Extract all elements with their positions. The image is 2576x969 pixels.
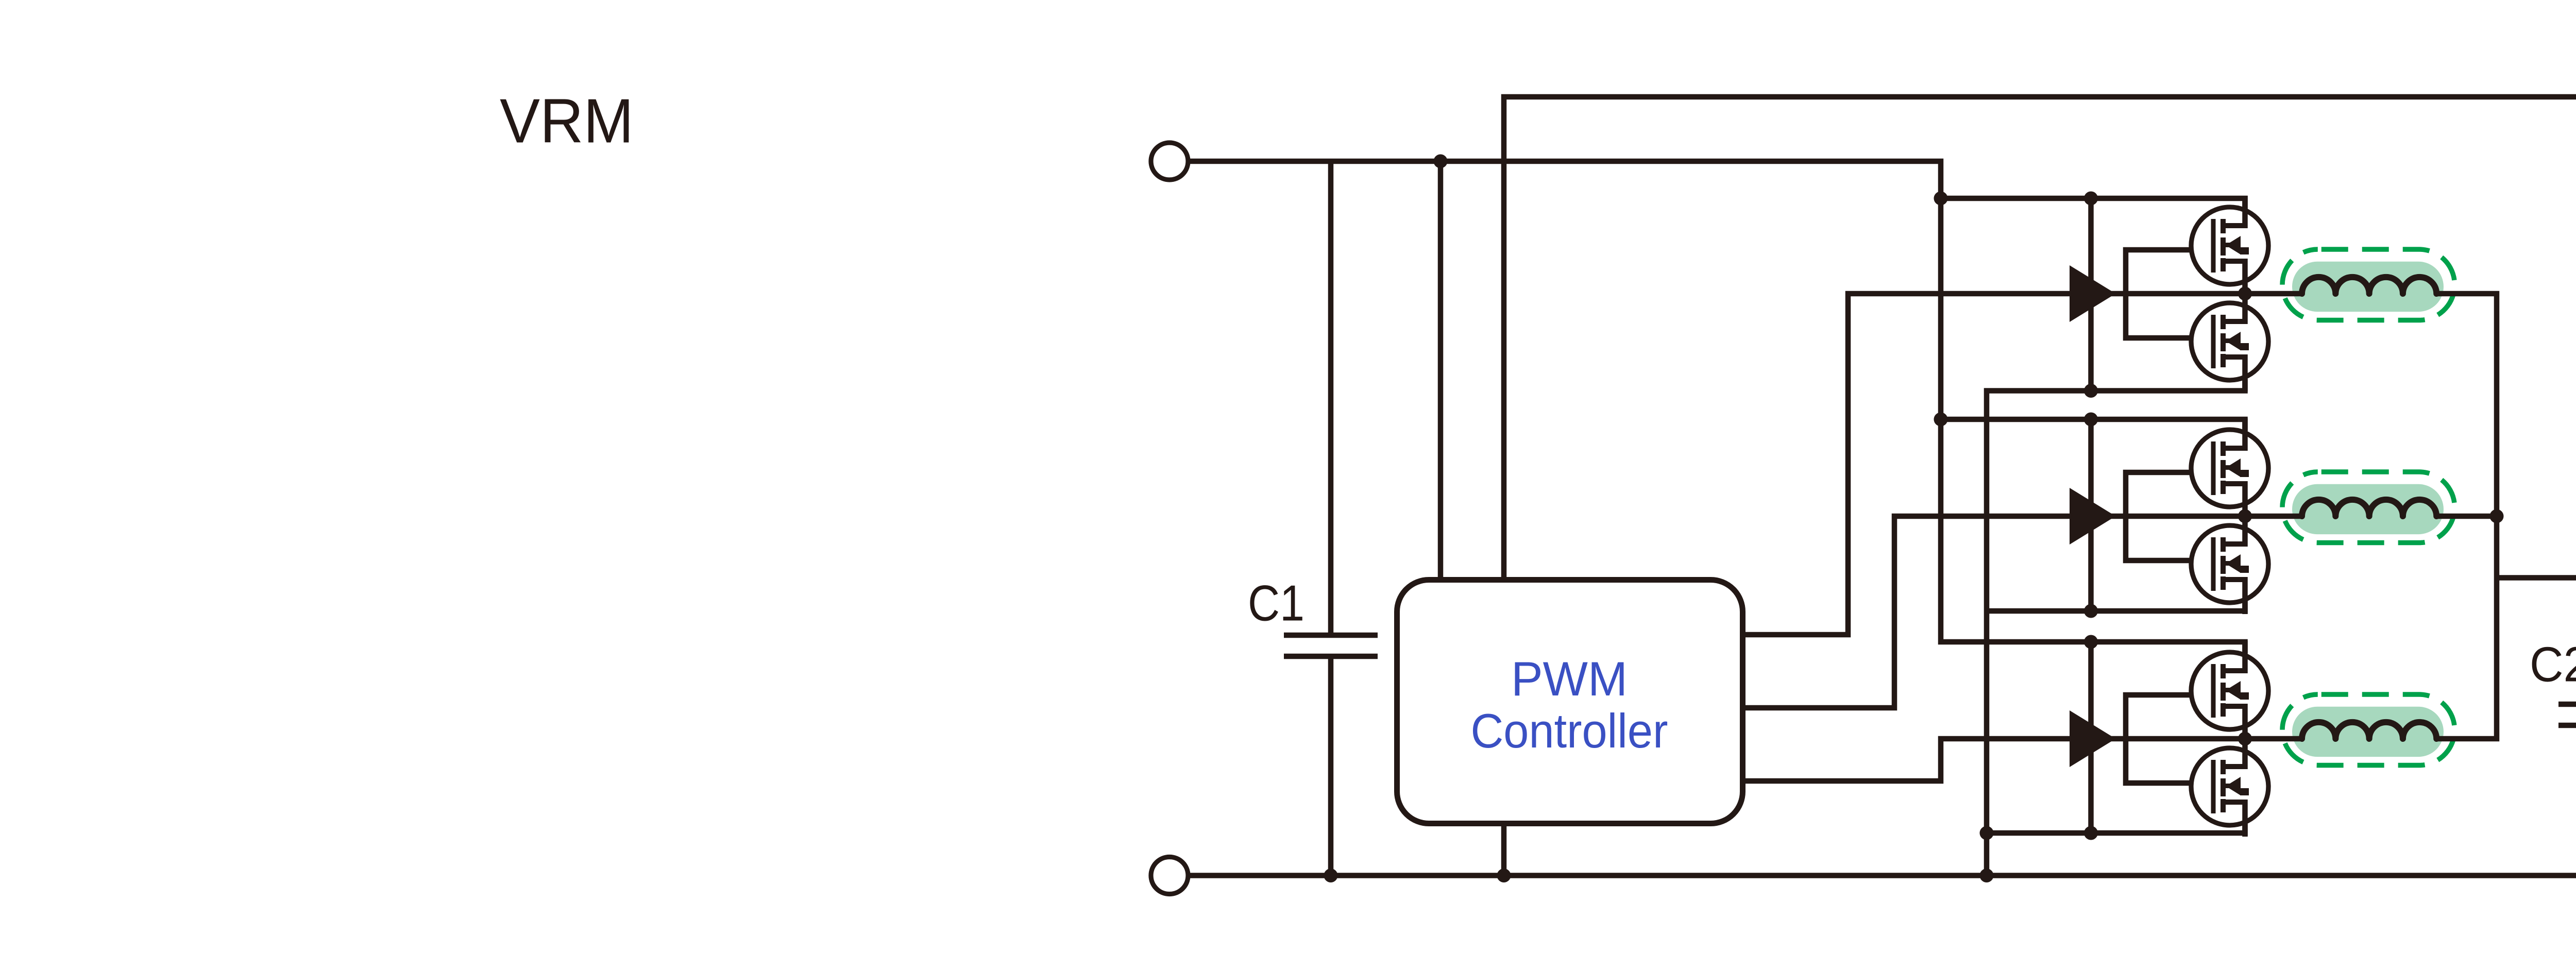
junction: output bus / phase 2 bbox=[2490, 509, 2504, 523]
wire: phase 2 gate bracket bbox=[2126, 472, 2194, 560]
wire: bottom ground rail bbox=[1170, 873, 2576, 878]
svg-text:VRM: VRM bbox=[500, 86, 634, 156]
wire: phase 1 gate bracket bbox=[2126, 250, 2194, 338]
inductor L1 winding bbox=[2302, 277, 2436, 294]
inductor L3 highlight dashed ring bbox=[2282, 694, 2455, 766]
high-side MOSFET Q3H bbox=[2191, 641, 2268, 741]
inductor L2 highlight fill bbox=[2292, 484, 2444, 534]
wire: feedback loop (PWM top, over the top, down to output node) bbox=[1504, 97, 2576, 590]
wire: PWM output 2 route to phase 2 node bbox=[1733, 516, 2245, 708]
svg-text:C1: C1 bbox=[1248, 575, 1304, 632]
wire: PWM ground lead bbox=[1501, 813, 1507, 876]
junction: phase 2 switch node bbox=[2238, 509, 2252, 523]
junction: PWM ground lead / ground rail bbox=[1497, 869, 1511, 882]
junction: source bus / phase 3 source rail bbox=[1980, 826, 1994, 840]
inductor L1 highlight dashed ring bbox=[2282, 249, 2455, 320]
junction: phase 2 vertical bottom bbox=[2084, 604, 2098, 618]
wire: phase 1 inter-rail vertical bbox=[2088, 198, 2094, 391]
junction: phase 3 switch node bbox=[2238, 732, 2252, 746]
wire: output bus with phase 1 and phase 3 inductor leads bbox=[2436, 294, 2497, 739]
inductor L3 highlight fill bbox=[2292, 707, 2444, 757]
PWM controller U1 bbox=[1397, 580, 1743, 824]
wire: phase 2 source rail bbox=[1984, 600, 2245, 611]
inductor L2 winding bbox=[2302, 500, 2436, 516]
capacitor C1 plates bbox=[1284, 635, 1378, 656]
junction: C1 / ground rail bbox=[1324, 869, 1338, 882]
junction: Vin bus / phase 1 Vin rail bbox=[1934, 192, 1948, 206]
wire: C1 branch lower vertical bbox=[1328, 656, 1334, 876]
wire: PWM Vin sense lead bbox=[1438, 161, 1444, 590]
inductor L1 highlight fill bbox=[2292, 262, 2444, 312]
wire: phase 3 inductor left lead bbox=[2245, 736, 2302, 742]
junction: phase 1 vertical bottom bbox=[2084, 384, 2098, 398]
junction: source bus / ground rail bbox=[1980, 869, 1994, 882]
junction: phase 1 vertical top bbox=[2084, 192, 2098, 206]
input terminal bottom-left bbox=[1151, 857, 1188, 894]
wire: phase 2 Vin rail bbox=[1938, 419, 2245, 431]
input terminal top-left bbox=[1151, 143, 1188, 180]
junction: Vin bus / phase 2 Vin rail bbox=[1934, 413, 1948, 427]
low-side MOSFET Q3L bbox=[2191, 737, 2268, 837]
driver/diode D2 bbox=[2070, 488, 2116, 545]
junction: phase 3 vertical bottom bbox=[2084, 826, 2098, 840]
high-side MOSFET Q2H bbox=[2191, 418, 2268, 518]
high-side MOSFET Q1H bbox=[2191, 196, 2268, 296]
svg-text:PWM: PWM bbox=[1511, 652, 1628, 706]
wire: output rail to + terminal bbox=[2494, 575, 2576, 581]
wire: phase 1 Vin rail bbox=[1938, 198, 2245, 210]
low-side MOSFET Q1L bbox=[2191, 292, 2268, 392]
wire: phase 3 gate bracket bbox=[2126, 695, 2194, 783]
driver/diode D3 bbox=[2070, 710, 2116, 767]
junction: input rail / PWM lead bbox=[1434, 155, 1448, 168]
wire: PWM output 3 route to phase 3 node bbox=[1733, 739, 2245, 781]
junction: phase 3 vertical top bbox=[2084, 635, 2098, 649]
wire: C1 branch upper vertical bbox=[1328, 161, 1334, 635]
driver/diode D1 bbox=[2070, 265, 2116, 322]
wire: input rail, Vin bus and phase 3 Vin rail bbox=[1170, 161, 2245, 653]
inductor L3 winding bbox=[2302, 722, 2436, 739]
wire: phase 2 inductor left lead bbox=[2245, 514, 2302, 519]
svg-text:Controller: Controller bbox=[1471, 704, 1668, 758]
capacitor C2 plates bbox=[2558, 704, 2576, 725]
inductor L2 highlight dashed ring bbox=[2282, 472, 2455, 543]
wire: source bus down to ground and phase 1 source rail bbox=[1987, 380, 2245, 876]
wire: phase 3 source rail bbox=[1984, 822, 2245, 833]
wire: phase 2 inter-rail vertical bbox=[2088, 419, 2094, 611]
wire: phase 3 inter-rail vertical bbox=[2088, 642, 2094, 833]
wire: phase 2 inductor right lead bbox=[2436, 514, 2499, 519]
junction: phase 1 switch node bbox=[2238, 287, 2252, 301]
low-side MOSFET Q2L bbox=[2191, 514, 2268, 614]
wire: phase 1 inductor left lead bbox=[2245, 291, 2302, 297]
junction: phase 2 vertical top bbox=[2084, 413, 2098, 427]
wire: PWM output 1 route to phase 1 node bbox=[1733, 294, 2245, 635]
svg-text:C2: C2 bbox=[2530, 637, 2576, 692]
